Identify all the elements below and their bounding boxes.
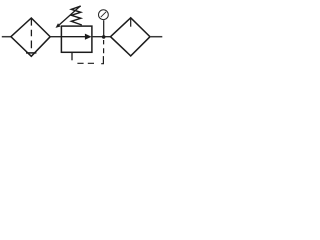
- regulator flow path: [61, 36, 85, 38]
- pressure gauge G1: [99, 10, 109, 20]
- filter F1 diamond: [11, 18, 50, 56]
- wire filter to regulator: [50, 36, 61, 38]
- wire inlet: [2, 36, 11, 38]
- lubricator drip line: [130, 18, 132, 27]
- gauge needle: [101, 12, 106, 17]
- regulator spring: [71, 6, 82, 25]
- adjustment arrow shaft: [59, 6, 80, 25]
- filter sump baffle line: [26, 52, 36, 54]
- regulator flow arrowhead: [85, 34, 92, 40]
- gauge stem wire: [103, 20, 105, 37]
- pilot sense dashed line horizontal: [77, 62, 94, 64]
- junction dot: [102, 35, 106, 39]
- pilot sense dashed line vertical: [103, 40, 105, 53]
- adjustment arrowhead: [56, 23, 61, 28]
- lubricator L1 diamond: [111, 18, 151, 56]
- wire outlet: [150, 36, 162, 38]
- regulator R1 body: [61, 26, 92, 52]
- wire regulator to lubricator: [92, 36, 111, 38]
- regulator vent stub: [71, 52, 73, 60]
- pilot sense dashed corner: [101, 56, 103, 64]
- filter element dashed line: [30, 18, 32, 48]
